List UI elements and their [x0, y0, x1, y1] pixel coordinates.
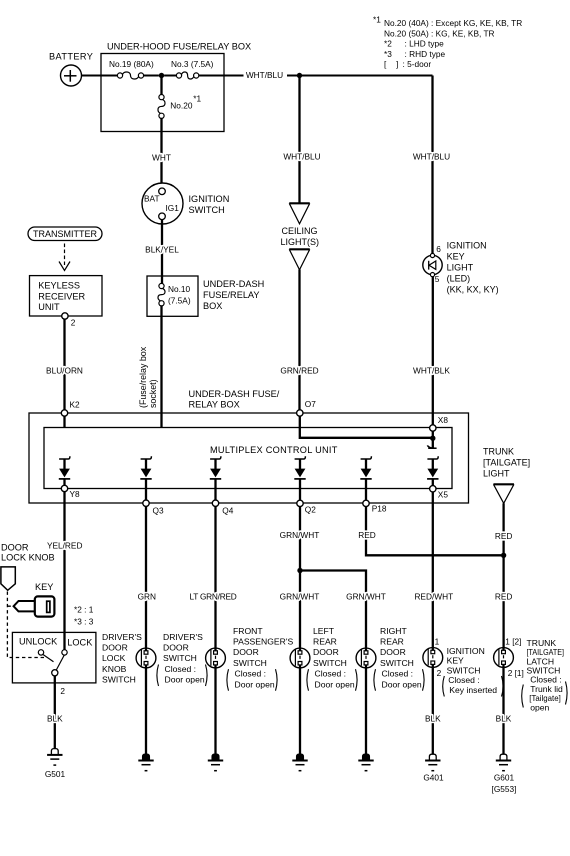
svg-text:YEL/RED: YEL/RED	[47, 540, 83, 550]
trunk latch switch	[494, 648, 514, 668]
svg-text:WHT/BLU: WHT/BLU	[413, 151, 450, 161]
label FRONT PASSENGER'S DOOR SWITCH (Closed : Door open)	[227, 626, 294, 691]
svg-text:RECEIVER: RECEIVER	[38, 291, 85, 301]
wire RED junction to trunk latch switch	[502, 555, 504, 647]
svg-text:WHT/BLK: WHT/BLK	[413, 365, 450, 375]
svg-text:2 [1]: 2 [1]	[508, 668, 524, 678]
svg-text:G401: G401	[423, 772, 444, 782]
svg-text:UNDER-DASH: UNDER-DASH	[203, 279, 264, 289]
wire GRN Q3 to driver's door switch	[145, 506, 147, 648]
svg-text:1 [2]: 1 [2]	[505, 636, 521, 646]
svg-text:Door open: Door open	[235, 679, 275, 689]
svg-text:5: 5	[435, 274, 440, 284]
svg-text:No.3 (7.5A): No.3 (7.5A)	[171, 59, 214, 69]
key symbol	[14, 601, 35, 611]
svg-text:LOCK: LOCK	[67, 638, 93, 648]
wire BLK trunk latch switch to ground	[502, 667, 504, 754]
svg-text:SWITCH: SWITCH	[233, 658, 267, 668]
svg-text:CEILING: CEILING	[281, 226, 317, 236]
ground driver's door switch	[143, 754, 150, 760]
wire GRN/RED to O7	[298, 270, 300, 411]
svg-text:GRN/WHT: GRN/WHT	[280, 591, 320, 601]
wire left rear door switch to ground	[299, 668, 301, 754]
svg-text:DOOR: DOOR	[163, 643, 189, 653]
svg-text:6: 6	[436, 244, 441, 254]
svg-text:X8: X8	[438, 415, 449, 425]
svg-text:IGNITION: IGNITION	[447, 240, 487, 250]
battery BATTERY	[61, 65, 82, 86]
svg-text:No.20 (50A) : KG, KE, KB, TR: No.20 (50A) : KG, KE, KB, TR	[384, 28, 495, 38]
svg-text:K2: K2	[70, 399, 81, 409]
svg-text:BLK: BLK	[425, 714, 441, 724]
diode D6 multiplex control unit	[427, 456, 438, 479]
svg-text:*2 : 1: *2 : 1	[74, 605, 94, 615]
svg-text:Door open: Door open	[382, 679, 422, 689]
svg-text:Closed :: Closed :	[448, 675, 480, 685]
svg-text:IGNITION: IGNITION	[189, 194, 230, 204]
wire BLK door lock knob switch to ground	[54, 676, 56, 749]
svg-text:RIGHT: RIGHT	[380, 626, 407, 636]
wire O7 to X8 node inside multiplex unit	[300, 416, 431, 438]
svg-text:Closed :: Closed :	[382, 669, 414, 679]
svg-text:LT GRN/RED: LT GRN/RED	[190, 591, 237, 601]
label RIGHT REAR DOOR SWITCH (Closed : Door open)	[374, 626, 424, 691]
svg-text:UNDER-HOOD FUSE/RELAY BOX: UNDER-HOOD FUSE/RELAY BOX	[107, 42, 251, 52]
wire fuse19 to junction	[144, 75, 159, 77]
wire GRN/RED ceiling light branch	[297, 73, 302, 78]
label fuse/relay box socket rotated	[138, 346, 158, 408]
terminal Q4	[212, 500, 218, 506]
svg-text:BAT: BAT	[144, 194, 160, 204]
svg-text:PASSENGER'S: PASSENGER'S	[233, 637, 293, 647]
wire right rear door switch to ground	[365, 668, 367, 754]
ignition key light (LED)	[423, 253, 442, 276]
svg-text:(LED): (LED)	[447, 274, 471, 284]
svg-text:IGNITION: IGNITION	[447, 646, 485, 656]
svg-text:LIGHT(S): LIGHT(S)	[280, 237, 319, 247]
svg-text:X5: X5	[438, 490, 449, 500]
svg-text:DOOR: DOOR	[380, 647, 406, 657]
svg-text:Q2: Q2	[305, 504, 316, 514]
terminal O7	[297, 410, 303, 416]
svg-text:(7.5A): (7.5A)	[168, 295, 191, 305]
svg-text:SWITCH: SWITCH	[447, 665, 481, 675]
dashed link key to switch	[7, 605, 13, 607]
svg-text:KEY: KEY	[447, 251, 465, 261]
right rear door switch	[356, 648, 376, 668]
svg-text:G601: G601	[494, 772, 515, 782]
svg-text:Y8: Y8	[70, 489, 81, 499]
wire WHT/BLU right column	[431, 76, 433, 257]
wire GRN/WHT branch to right rear switch	[300, 571, 366, 649]
junction under-hood	[159, 73, 164, 78]
svg-text:RED: RED	[358, 530, 376, 540]
wire driver's door switch to ground	[145, 668, 147, 754]
under-dash fuse/relay box outer	[29, 413, 469, 503]
ground G401	[429, 754, 436, 760]
wire front passenger's door switch to ground	[214, 668, 216, 754]
svg-text:2: 2	[60, 686, 65, 696]
wire diode4 to Q2	[299, 479, 301, 500]
svg-text:DOOR: DOOR	[102, 643, 128, 653]
wire battery to under-hood fuse box	[82, 75, 118, 77]
svg-text:LIGHT: LIGHT	[483, 468, 510, 478]
diode D5 multiplex control unit	[360, 456, 371, 479]
trunk light label TRUNK [TAILGATE] LIGHT	[483, 446, 530, 478]
multiplex control unit box	[44, 428, 452, 489]
svg-text:LEFT: LEFT	[313, 626, 335, 636]
svg-text:RED: RED	[495, 531, 513, 541]
svg-text:DOOR: DOOR	[233, 647, 259, 657]
svg-text:2: 2	[437, 668, 442, 678]
svg-text:SWITCH: SWITCH	[189, 205, 225, 215]
wire BLK/YEL ignition to under-dash fuse box	[161, 220, 163, 284]
notes top right	[373, 14, 522, 69]
svg-text:LOCK KNOB: LOCK KNOB	[1, 552, 55, 562]
wire diode2 to Q3	[145, 479, 147, 500]
ground right rear door switch	[363, 754, 370, 760]
svg-text:SWITCH: SWITCH	[313, 658, 347, 668]
terminal X8	[430, 425, 436, 431]
front passenger's door switch	[206, 648, 226, 668]
svg-text:RELAY BOX: RELAY BOX	[189, 400, 240, 410]
wire YEL/RED Y8 to door lock knob switch	[63, 492, 65, 650]
diode D1 multiplex control unit	[59, 456, 70, 479]
label LEFT REAR DOOR SWITCH (Closed : Door open)	[307, 626, 357, 691]
lever alternate throw	[43, 655, 54, 662]
svg-text:Door open: Door open	[165, 675, 205, 685]
svg-text:GRN: GRN	[138, 591, 156, 601]
svg-text:BLK: BLK	[47, 714, 63, 724]
svg-text:GRN/WHT: GRN/WHT	[346, 591, 386, 601]
svg-text:IG1: IG1	[166, 203, 180, 213]
terminal X5	[432, 479, 434, 486]
svg-text:LOCK: LOCK	[102, 653, 126, 663]
ground front passenger's door switch	[212, 754, 219, 760]
svg-text:DRIVER'S: DRIVER'S	[102, 632, 142, 642]
svg-text:Key inserted: Key inserted	[449, 685, 497, 695]
label DRIVER'S DOOR LOCK KNOB SWITCH	[102, 632, 142, 685]
diode D4 multiplex control unit	[294, 456, 305, 479]
svg-text:KEYLESS: KEYLESS	[38, 281, 80, 291]
wire BLU/ORN keyless to K2	[63, 319, 65, 410]
diode D2 multiplex control unit	[140, 456, 151, 479]
label TRUNK [TAILGATE] LATCH SWITCH	[522, 638, 567, 712]
fuse No.3 (7.5A)	[176, 73, 181, 78]
svg-text:TRANSMITTER: TRANSMITTER	[33, 229, 97, 239]
svg-text:UNIT: UNIT	[38, 302, 60, 312]
terminal Y8	[63, 479, 65, 485]
svg-text:REAR: REAR	[313, 637, 337, 647]
svg-text:BATTERY: BATTERY	[49, 52, 93, 62]
internal connection squiggle below X8	[427, 440, 436, 448]
door lock knob label	[1, 542, 55, 562]
trunk light connector triangle	[493, 483, 514, 485]
wire diode3 to Q4	[214, 479, 216, 500]
svg-text:Closed :: Closed :	[165, 664, 197, 674]
wire WHT/BLU fuse3 to right	[199, 75, 244, 77]
left rear door switch	[290, 648, 310, 668]
svg-text:GRN/WHT: GRN/WHT	[280, 530, 320, 540]
dashed mechanical link knob to switch	[7, 592, 45, 658]
wire RED P18 down	[366, 507, 501, 556]
svg-text:REAR: REAR	[380, 637, 404, 647]
wire K2 into multiplex unit	[63, 416, 65, 427]
svg-text:GRN/RED: GRN/RED	[280, 365, 318, 375]
ignition key switch	[423, 648, 443, 668]
label UNDER-DASH FUSE/RELAY BOX small	[203, 279, 264, 311]
label IGNITION KEY SWITCH (Closed : Key inserted)	[443, 646, 503, 697]
door lock knob symbol	[1, 567, 15, 590]
terminal P18	[363, 500, 369, 506]
svg-text:SWITCH: SWITCH	[380, 658, 414, 668]
svg-text:*3 : 3: *3 : 3	[74, 617, 94, 627]
wire RED trunk light down	[502, 503, 504, 555]
svg-text:FUSE/RELAY: FUSE/RELAY	[203, 290, 260, 300]
svg-text:KEY: KEY	[35, 582, 53, 592]
label UNDER-DASH FUSE/ RELAY BOX	[189, 389, 280, 410]
under-dash fuse/relay box (No.10)	[147, 276, 198, 316]
fuse No.10 (7.5A)	[159, 283, 164, 288]
svg-text:[TAILGATE]: [TAILGATE]	[483, 457, 530, 467]
wire diode5 to P18	[365, 479, 367, 500]
svg-text:open: open	[530, 702, 549, 712]
svg-text:No.19 (80A): No.19 (80A)	[109, 59, 154, 69]
svg-text:WHT: WHT	[152, 152, 171, 162]
label IGNITION SWITCH	[189, 194, 230, 215]
svg-text:BLU/ORN: BLU/ORN	[46, 365, 83, 375]
contact LOCK	[62, 650, 67, 655]
svg-text:G501: G501	[45, 769, 66, 779]
wire fuse10 to multiplex box (fuse/relay box socket)	[160, 306, 162, 428]
ground G601 [G553]	[500, 754, 507, 760]
svg-text:WHT/BLU: WHT/BLU	[246, 70, 283, 80]
wire GRN/WHT Q2 down	[299, 507, 301, 649]
svg-text:SWITCH: SWITCH	[163, 653, 197, 663]
terminal Q2	[297, 500, 303, 506]
fuse No.20	[160, 76, 162, 95]
svg-text:FRONT: FRONT	[233, 626, 263, 636]
wire LT GRN/RED Q4 to front passenger's door switch	[214, 506, 216, 648]
svg-text:No.20: No.20	[170, 100, 193, 110]
contact UNLOCK	[38, 650, 43, 655]
svg-text:No.20 (40A) : Except KG, KE, K: No.20 (40A) : Except KG, KE, KB, TR	[384, 18, 522, 28]
fuse No.19 (80A)	[117, 73, 122, 78]
junction GRN/WHT branch	[297, 568, 302, 573]
svg-text:LIGHT: LIGHT	[447, 263, 474, 273]
svg-text:*1: *1	[193, 93, 201, 103]
svg-text:*1: *1	[373, 14, 381, 24]
under-hood fuse/relay box	[101, 54, 224, 132]
wire BLK ignition key switch to ground	[432, 667, 434, 754]
svg-text:UNLOCK: UNLOCK	[19, 636, 58, 646]
ground G501	[51, 749, 58, 755]
svg-text:DOOR: DOOR	[313, 647, 339, 657]
svg-text:DRIVER'S: DRIVER'S	[163, 632, 203, 642]
pivot terminal door lock knob switch	[52, 670, 58, 676]
svg-text:RED: RED	[495, 591, 513, 601]
svg-text:Closed :: Closed :	[235, 669, 267, 679]
svg-text:BLK/YEL: BLK/YEL	[145, 244, 179, 254]
dashed signal arrow transmitter to keyless receiver	[64, 244, 66, 266]
svg-text:P18: P18	[372, 503, 387, 513]
svg-text:SWITCH: SWITCH	[102, 675, 136, 685]
svg-text:WHT/BLU: WHT/BLU	[283, 151, 320, 161]
svg-text:BOX: BOX	[203, 301, 222, 311]
svg-text:UNDER-DASH FUSE/: UNDER-DASH FUSE/	[189, 389, 280, 399]
svg-text:socket): socket)	[148, 379, 158, 408]
svg-text:Door open: Door open	[315, 679, 355, 689]
label IGNITION KEY LIGHT (LED) (KK, KX, KY)	[447, 240, 499, 294]
svg-text:No.10: No.10	[168, 284, 191, 294]
label DRIVER'S DOOR SWITCH (Closed : Door open)	[157, 632, 207, 686]
terminal Q3	[143, 500, 149, 506]
svg-text:RED/WHT: RED/WHT	[414, 591, 453, 601]
wire WHT/BLK to X8	[432, 277, 434, 425]
svg-text:2: 2	[71, 318, 76, 328]
terminal 2 keyless receiver	[62, 313, 68, 319]
keyless receiver unit KEYLESS RECEIVER UNIT	[30, 276, 103, 316]
svg-text:(Fuse/relay box: (Fuse/relay box	[138, 346, 148, 408]
junction RED trunk column	[501, 553, 506, 558]
svg-text:BLK: BLK	[496, 714, 512, 724]
ignition switch IGNITION SWITCH	[142, 183, 183, 224]
door lock knob switch box	[12, 632, 96, 683]
svg-text:(KK, KX, KY): (KK, KX, KY)	[447, 285, 499, 295]
svg-text:O7: O7	[305, 399, 316, 409]
svg-text:[G553]: [G553]	[492, 784, 517, 794]
svg-text:Q4: Q4	[222, 506, 233, 516]
svg-text:TRUNK: TRUNK	[483, 446, 514, 456]
svg-text:MULTIPLEX CONTROL UNIT: MULTIPLEX CONTROL UNIT	[210, 445, 338, 455]
ceiling light connector CEILING LIGHT(S)	[289, 202, 310, 204]
transmitter TRANSMITTER	[28, 227, 102, 241]
driver's door switch	[136, 648, 156, 668]
svg-text:Q3: Q3	[153, 506, 164, 516]
ground left rear door switch	[297, 754, 304, 760]
switch lever to lock	[56, 655, 64, 670]
svg-text:KEY: KEY	[447, 656, 464, 666]
diode D3 multiplex control unit	[210, 456, 221, 479]
svg-text:1: 1	[435, 636, 440, 646]
junction node below X8	[432, 431, 434, 438]
wire RED/WHT X5 to ignition key switch	[432, 492, 434, 648]
svg-text:KNOB: KNOB	[102, 664, 127, 674]
wire junction to fuse3	[164, 75, 176, 77]
svg-text:Closed :: Closed :	[315, 669, 347, 679]
wire WHT fuse20 to ignition switch	[160, 118, 162, 188]
terminal K2	[61, 410, 67, 416]
svg-text:DOOR: DOOR	[1, 542, 29, 552]
